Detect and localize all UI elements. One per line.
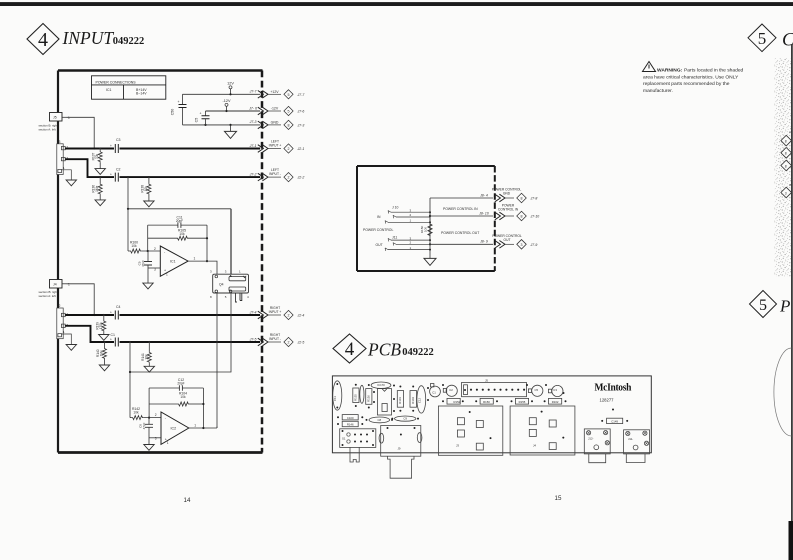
svg-text:10k: 10k xyxy=(131,244,137,248)
svg-text:14: 14 xyxy=(184,497,191,504)
svg-text:10k: 10k xyxy=(180,395,186,399)
pcb resistor R135 xyxy=(353,388,359,403)
svg-text:IC1: IC1 xyxy=(106,88,112,92)
svg-text:IC170: IC170 xyxy=(377,383,385,387)
svg-text:1Me: 1Me xyxy=(100,350,104,356)
svg-text:C3: C3 xyxy=(553,388,557,392)
svg-text:OUT: OUT xyxy=(376,243,383,247)
svg-text:J7-10: J7-10 xyxy=(530,215,540,219)
ground (op-amp 2 + input) xyxy=(144,445,154,451)
capacitor C11 (feedback) xyxy=(148,215,207,228)
wire feedback verticals xyxy=(147,225,149,251)
svg-text:R136: R136 xyxy=(366,395,370,402)
connector J2 xyxy=(57,304,69,339)
svg-text:1: 1 xyxy=(239,269,241,273)
wire op-amp output xyxy=(188,261,217,274)
main box top edge xyxy=(58,69,263,71)
svg-text:J7-1: J7-1 xyxy=(249,144,257,148)
wire op-amp + input xyxy=(148,267,160,269)
svg-text:C1: C1 xyxy=(432,390,436,394)
svg-text:4: 4 xyxy=(38,29,48,51)
svg-text:J7-8: J7-8 xyxy=(530,197,538,201)
pcb screw crosses xyxy=(587,431,648,445)
pcb resistor C149 xyxy=(607,418,623,423)
svg-text:1: 1 xyxy=(167,441,169,445)
svg-text:1: 1 xyxy=(410,246,412,250)
svg-text:C5: C5 xyxy=(195,118,199,123)
connector row POWER CONTROL IN xyxy=(478,204,539,221)
pcb cap IC170 xyxy=(371,382,391,388)
svg-text:R135: R135 xyxy=(354,394,358,401)
svg-text:1: 1 xyxy=(194,257,196,261)
pcb header J5 xyxy=(462,383,527,397)
svg-text:5: 5 xyxy=(758,29,767,48)
svg-text:-: - xyxy=(165,417,167,421)
pcb cap C2 xyxy=(446,385,457,396)
note under J4 xyxy=(39,290,58,298)
svg-text:B−14V: B−14V xyxy=(136,91,147,95)
svg-text:C4: C4 xyxy=(116,305,121,309)
svg-text:-12V: -12V xyxy=(271,107,279,111)
resistor R105 (feedback) xyxy=(148,229,207,241)
ground (R139) xyxy=(99,335,109,341)
svg-text:IN: IN xyxy=(377,215,381,219)
right page edge line xyxy=(791,45,793,560)
wire +12V rail xyxy=(183,93,261,95)
connector row POWER CONTROL GND xyxy=(479,188,537,203)
svg-text:P: P xyxy=(779,297,790,316)
svg-text:IC1: IC1 xyxy=(170,260,176,264)
wire op-amp 2 output xyxy=(189,426,217,428)
pcb cap C8 xyxy=(369,417,390,423)
section marker diamond 5 PCB (right, lower) xyxy=(750,291,777,318)
svg-text:R101: R101 xyxy=(398,397,402,404)
pcb jack J9 xyxy=(381,426,421,457)
connector row RIGHT INPUT - xyxy=(249,333,305,347)
svg-text:12V: 12V xyxy=(227,82,234,86)
shaded area strip (right edge) xyxy=(775,58,792,277)
svg-text:C2: C2 xyxy=(449,388,453,392)
svg-text:+: + xyxy=(110,311,112,315)
svg-text:C9: C9 xyxy=(403,417,407,421)
svg-text:C2: C2 xyxy=(116,168,121,172)
svg-text:R155: R155 xyxy=(519,400,526,404)
svg-text:2: 2 xyxy=(288,147,290,151)
capacitor C9 xyxy=(138,251,153,283)
svg-text:8: 8 xyxy=(210,295,212,299)
svg-text:100: 100 xyxy=(423,227,427,232)
large arc at right edge xyxy=(774,348,792,436)
svg-text:section A: left: section A: left xyxy=(39,294,56,298)
resistor R139 xyxy=(95,314,106,335)
svg-text:1: 1 xyxy=(166,273,168,277)
svg-text:+: + xyxy=(110,144,112,148)
connector J11 xyxy=(376,235,432,251)
capacitor C50 xyxy=(171,94,187,125)
svg-text:OUT: OUT xyxy=(504,238,511,242)
svg-text:replacement parts recommended: replacement parts recommended by the xyxy=(643,81,730,87)
ground (J3 shield) xyxy=(62,170,72,180)
ground (R137) xyxy=(95,169,105,175)
resistor R138 xyxy=(140,176,151,201)
svg-text:+: + xyxy=(178,100,180,104)
svg-text:15: 15 xyxy=(555,495,562,502)
svg-text:J8- 4: J8- 4 xyxy=(479,193,488,197)
wire -12V rail xyxy=(206,110,261,112)
svg-text:area have critical characteris: area have critical characteristics. Use … xyxy=(643,74,739,80)
svg-text:S1: S1 xyxy=(342,437,346,441)
svg-text:10k: 10k xyxy=(144,186,148,192)
svg-text:R143: R143 xyxy=(411,397,415,404)
ground (R136) xyxy=(95,200,105,206)
svg-text:10k: 10k xyxy=(133,411,139,415)
svg-text:J9: J9 xyxy=(398,446,401,450)
svg-text:INPUT: INPUT xyxy=(62,28,115,48)
svg-text:2: 2 xyxy=(154,247,156,251)
resistor R136 xyxy=(92,176,103,200)
svg-text:3: 3 xyxy=(225,269,227,273)
page top border xyxy=(0,2,793,6)
pcb switch S1 xyxy=(340,429,376,448)
svg-text:+12V: +12V xyxy=(270,90,279,94)
node -12V supply xyxy=(222,99,230,111)
ground (R140) xyxy=(99,365,109,371)
svg-text:C12: C12 xyxy=(418,397,422,403)
svg-text:J7-9: J7-9 xyxy=(530,243,538,247)
svg-text:170k: 170k xyxy=(99,322,103,329)
connector J4 xyxy=(50,280,71,289)
svg-text:J7- 6: J7- 6 xyxy=(248,106,257,110)
note under J5 xyxy=(39,124,58,132)
ground (R141) xyxy=(144,366,154,372)
ground (R138) xyxy=(144,201,154,207)
svg-text:J7-3: J7-3 xyxy=(249,120,257,124)
svg-text:3: 3 xyxy=(785,191,787,195)
main box right edge (dashed) xyxy=(261,71,264,453)
small ref diamond 4 (right edge) xyxy=(781,187,792,198)
wire GND rail xyxy=(183,124,261,126)
node 12V supply xyxy=(227,82,234,95)
svg-text:J7-3: J7-3 xyxy=(297,123,305,127)
pcb S1 stub xyxy=(350,447,359,462)
svg-text:R146: R146 xyxy=(347,423,354,427)
wire pc gnd vertical xyxy=(429,198,431,258)
svg-text:70k: 70k xyxy=(95,154,99,160)
op-amp IC2 xyxy=(155,412,197,445)
svg-text:1: 1 xyxy=(68,283,70,287)
connector row J7-3 GND xyxy=(249,120,305,129)
resistor R141 xyxy=(141,341,152,366)
pcb S1 circles xyxy=(347,433,350,443)
wire power control in xyxy=(430,215,493,217)
svg-text:3: 3 xyxy=(521,243,523,247)
svg-text:INPUT -: INPUT - xyxy=(269,337,281,341)
pcb connector J12 xyxy=(584,429,610,454)
capacitor C8 xyxy=(139,418,154,445)
resistor R104 (feedback 2) xyxy=(149,392,203,406)
svg-text:J5: J5 xyxy=(53,116,57,120)
pcb resistor R136 xyxy=(366,389,372,405)
svg-text:GND: GND xyxy=(271,120,279,124)
wire tap to op-amp 2 (vertical) xyxy=(129,341,131,343)
svg-text:8: 8 xyxy=(785,152,787,156)
resistor R150 xyxy=(420,221,432,236)
pcb cap C5 xyxy=(532,385,543,396)
svg-text:J2-5: J2-5 xyxy=(297,341,305,345)
svg-text:J5: J5 xyxy=(485,378,488,382)
svg-text:J12-: J12- xyxy=(588,437,594,441)
ground (power control) xyxy=(424,258,436,265)
warning triangle icon xyxy=(643,62,656,72)
pcb resistor R102 xyxy=(549,398,562,404)
svg-text:J7-2: J7-2 xyxy=(249,172,257,176)
svg-text:1: 1 xyxy=(68,116,70,120)
pcb J12 stub xyxy=(589,454,606,463)
svg-text:2: 2 xyxy=(410,241,412,245)
svg-text:J2-4: J2-4 xyxy=(297,314,305,318)
wire J4 to input node xyxy=(67,284,95,315)
svg-text:2: 2 xyxy=(288,314,290,318)
wire power control out xyxy=(430,243,493,245)
wire tap to op-amp (vertical) xyxy=(127,176,129,178)
svg-text:C5: C5 xyxy=(535,388,539,392)
svg-text:INPUT +: INPUT + xyxy=(269,144,282,148)
svg-text:section A: left: section A: left xyxy=(39,127,56,131)
svg-text:20pF: 20pF xyxy=(176,219,183,223)
pcb resistor R155 xyxy=(515,398,528,404)
wire power control gnd xyxy=(430,197,493,199)
svg-text:5: 5 xyxy=(225,295,227,299)
svg-text:manufacturer.: manufacturer. xyxy=(643,88,673,94)
svg-text:POWER CONTROL OUT: POWER CONTROL OUT xyxy=(441,231,479,235)
svg-text:PCB: PCB xyxy=(367,340,401,360)
power connections table xyxy=(92,76,166,99)
svg-text:McIntosh: McIntosh xyxy=(595,382,633,393)
pcb connector J4 xyxy=(510,406,575,455)
svg-text:-: - xyxy=(164,251,166,255)
svg-text:Parts located in the shaded: Parts located in the shaded xyxy=(684,68,744,74)
svg-text:IC2: IC2 xyxy=(171,427,177,431)
svg-text:-12V: -12V xyxy=(222,99,230,103)
capacitor C1 xyxy=(110,333,118,347)
capacitor C2 xyxy=(110,168,121,182)
main box bottom edge xyxy=(58,451,263,454)
pcb connector J11 xyxy=(624,430,650,454)
svg-text:5: 5 xyxy=(288,110,290,114)
section marker diamond 5 CONNECTOR (top right) xyxy=(748,24,776,52)
connector J10 xyxy=(377,206,431,224)
wire tap across (Q4 to lower stage) xyxy=(130,293,231,372)
svg-text:POWER CONTROL IN: POWER CONTROL IN xyxy=(443,207,478,211)
pcb J9 stub xyxy=(388,456,415,478)
svg-text:C50: C50 xyxy=(171,109,175,116)
pcb cap C11 xyxy=(333,381,342,410)
svg-text:R150: R150 xyxy=(483,400,490,404)
svg-text:10k: 10k xyxy=(144,354,148,360)
svg-text:128277: 128277 xyxy=(600,398,615,403)
svg-text:WARNING:: WARNING: xyxy=(657,68,683,74)
svg-text:INPUT +: INPUT + xyxy=(269,310,282,314)
pcb resistor R101 xyxy=(397,391,403,408)
svg-text:J7-6: J7-6 xyxy=(297,110,305,114)
pcb cap C100 xyxy=(342,415,358,420)
transistor array Q4 xyxy=(210,269,249,299)
wire Q4 to lower output xyxy=(216,293,218,428)
pcb board outline xyxy=(332,376,651,453)
svg-text:2: 2 xyxy=(288,341,290,345)
svg-text:INPUT -: INPUT - xyxy=(269,172,281,176)
svg-text:R152: R152 xyxy=(454,400,461,404)
svg-text:C3: C3 xyxy=(116,138,121,142)
svg-text:J7-7: J7-7 xyxy=(249,90,258,94)
section marker diamond 4 (PCB) xyxy=(333,334,366,363)
svg-text:J4: J4 xyxy=(533,444,536,448)
svg-text:J7-7: J7-7 xyxy=(297,93,306,97)
svg-text:J 10: J 10 xyxy=(392,206,399,210)
svg-text:8: 8 xyxy=(785,139,787,143)
pcb vias xyxy=(336,383,628,446)
svg-text:3: 3 xyxy=(210,269,212,273)
small ref diamond 2 (right edge) xyxy=(781,148,792,159)
svg-text:1: 1 xyxy=(63,330,65,334)
svg-text:GND: GND xyxy=(503,192,511,196)
svg-text:J2-1: J2-1 xyxy=(297,147,305,151)
connector row RIGHT INPUT + xyxy=(249,306,305,320)
svg-text:POWER CONTROL: POWER CONTROL xyxy=(363,228,393,232)
svg-text:+: + xyxy=(110,338,112,342)
wire feedback 2 verticals xyxy=(148,388,150,418)
pcb cap C12 xyxy=(417,386,426,413)
svg-text:J8- 9: J8- 9 xyxy=(479,240,488,244)
connector J5 xyxy=(50,113,71,122)
svg-text:8: 8 xyxy=(521,215,523,219)
connector J3 xyxy=(57,140,69,175)
pcb tiny labels xyxy=(333,378,633,450)
pcb header J5 pins xyxy=(470,389,525,391)
svg-text:1Me: 1Me xyxy=(95,185,99,191)
svg-text:J8- 10: J8- 10 xyxy=(478,211,489,215)
svg-text:J11-: J11- xyxy=(628,437,633,441)
svg-text:J2: J2 xyxy=(57,304,61,308)
svg-text:2: 2 xyxy=(288,176,290,180)
svg-text:+: + xyxy=(200,112,202,116)
connector row J7-7 +12V xyxy=(249,90,306,99)
power control box xyxy=(357,166,495,271)
wire LEFT INPUT + (row A) xyxy=(65,148,114,150)
section marker diamond 4 (title) xyxy=(27,24,59,55)
svg-text:049222: 049222 xyxy=(402,347,434,358)
svg-text:8: 8 xyxy=(288,124,290,128)
svg-text:J7-4: J7-4 xyxy=(249,310,257,314)
resistor R100 xyxy=(128,241,160,254)
op-amp IC1 xyxy=(154,246,196,277)
svg-text:J7-5: J7-5 xyxy=(249,337,257,341)
svg-text:C100: C100 xyxy=(347,416,354,420)
pcb cap C151 xyxy=(360,385,364,403)
svg-text:47pF: 47pF xyxy=(142,422,146,429)
svg-text:8: 8 xyxy=(521,197,523,201)
pcb J11 stub xyxy=(626,454,645,463)
svg-text:C11: C11 xyxy=(333,396,337,401)
svg-text:1: 1 xyxy=(194,424,196,428)
svg-text:5: 5 xyxy=(288,93,290,97)
connector row LEFT INPUT + xyxy=(249,140,305,154)
svg-text:J3: J3 xyxy=(456,444,459,448)
wire op-amp 2 + input xyxy=(149,437,161,439)
svg-text:2: 2 xyxy=(410,213,412,217)
svg-text:Q4: Q4 xyxy=(219,283,224,287)
warning text xyxy=(643,68,744,94)
svg-text:5: 5 xyxy=(759,297,767,314)
connector row POWER CONTROL OUT xyxy=(479,234,537,249)
svg-text:3: 3 xyxy=(410,208,412,212)
resistor R137 xyxy=(92,147,103,168)
svg-text:POWER CONNECTIONS: POWER CONNECTIONS xyxy=(96,80,137,84)
svg-text:J3: J3 xyxy=(57,140,61,144)
svg-text:4: 4 xyxy=(345,339,355,360)
svg-text:4: 4 xyxy=(247,295,249,299)
ground (op-amp + input) xyxy=(143,283,153,289)
svg-text:J2-2: J2-2 xyxy=(297,176,305,180)
pcb cap C1 xyxy=(430,386,441,397)
pcb resistor R150 xyxy=(480,398,493,404)
small ref diamond 3 (right edge) xyxy=(781,160,792,171)
resistor R142 xyxy=(130,407,161,420)
svg-text:+: + xyxy=(110,173,112,177)
svg-text:R102: R102 xyxy=(552,400,559,404)
pcb IC1 dip xyxy=(377,389,391,415)
capacitor C4 xyxy=(110,305,121,320)
capacitor C12 (feedback 2) xyxy=(149,378,203,391)
resistor R140 xyxy=(96,341,107,365)
connector row J7-6 -12V xyxy=(248,106,304,115)
pcb connector J3 xyxy=(438,406,502,455)
svg-text:C8: C8 xyxy=(378,418,382,422)
svg-text:3: 3 xyxy=(155,437,157,441)
svg-text:C149: C149 xyxy=(611,419,618,423)
wire tap across to Q4 xyxy=(128,208,231,210)
wire J5 to input node xyxy=(67,117,95,148)
capacitor C5 xyxy=(195,111,210,125)
svg-text:1: 1 xyxy=(410,219,412,223)
svg-text:C1: C1 xyxy=(111,333,116,337)
ground (J2 shield) xyxy=(62,334,72,345)
capacitor C3 xyxy=(110,138,121,153)
svg-text:47pF: 47pF xyxy=(141,260,145,267)
pcb resistor R146 xyxy=(342,421,358,426)
pcb resistor R143 xyxy=(410,391,417,408)
svg-text:J4: J4 xyxy=(53,283,57,287)
main box left edge xyxy=(57,71,59,453)
ground (rails) xyxy=(230,125,232,131)
wire RIGHT INPUT - (row B') xyxy=(65,326,114,342)
pcb cap C9 xyxy=(395,416,416,421)
wire LEFT INPUT - (row B) xyxy=(65,159,114,177)
svg-text:1: 1 xyxy=(63,166,65,170)
pcb cap C3 xyxy=(552,385,563,396)
black corner bar bottom right xyxy=(789,521,793,560)
svg-text:2: 2 xyxy=(155,413,157,417)
svg-text:CONTROL IN: CONTROL IN xyxy=(498,208,519,212)
wire RIGHT INPUT + (row A') xyxy=(65,314,114,316)
small ref diamond 1 (right edge) xyxy=(781,135,792,146)
transistor stub below Q4 xyxy=(236,293,242,302)
svg-text:J11: J11 xyxy=(392,235,397,239)
svg-text:20pF: 20pF xyxy=(177,382,184,386)
pcb small rect near C2 xyxy=(443,388,446,392)
svg-text:049222: 049222 xyxy=(113,36,145,47)
connector row LEFT INPUT - xyxy=(249,168,305,182)
